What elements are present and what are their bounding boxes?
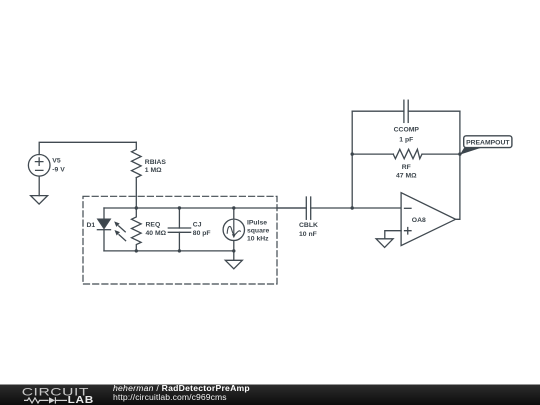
svg-text:LAB: LAB [68, 395, 94, 405]
node REQ bottom rail [135, 249, 138, 252]
wire CCOMP right [408, 110, 460, 112]
svg-text:RBIAS: RBIAS [145, 159, 167, 166]
svg-text:47 MΩ: 47 MΩ [396, 173, 417, 180]
wire V5 top to RBIAS [39, 142, 136, 154]
wire IPulse to ground [233, 251, 235, 260]
label PREAMPOUT [466, 139, 510, 146]
svg-text:80 pF: 80 pF [193, 230, 211, 237]
voltage source V5 [28, 155, 50, 177]
svg-text:D1: D1 [87, 222, 96, 229]
svg-text:10 kHz: 10 kHz [247, 236, 269, 243]
wire CCOMP left [352, 110, 404, 112]
wire top rail [104, 207, 306, 209]
label CCOMP value [394, 126, 420, 143]
node feedback left minus [351, 206, 354, 209]
flag PREAMPOUT [460, 136, 512, 155]
wire feedback left vertical [351, 111, 353, 208]
label V5 value [52, 158, 65, 174]
label OA8 [412, 217, 426, 224]
label D1 [87, 222, 96, 229]
svg-text:-9 V: -9 V [52, 166, 65, 173]
wire op-amp plus to ground [385, 231, 401, 239]
node IPulse bottom rail [232, 249, 235, 252]
svg-text:40 MΩ: 40 MΩ [146, 230, 167, 237]
svg-text:CJ: CJ [193, 221, 202, 228]
label RF value [396, 164, 417, 180]
label CJ value [193, 221, 211, 237]
svg-text:IPulse: IPulse [247, 220, 267, 227]
wire V5 bottom [38, 176, 40, 196]
capacitor CCOMP [404, 100, 408, 122]
resistor REQ [132, 208, 142, 251]
node IPulse top rail [232, 206, 235, 209]
svg-text:PREAMPOUT: PREAMPOUT [466, 139, 510, 146]
current source IPulse [223, 208, 244, 251]
wire RBIAS to node [135, 178, 137, 208]
svg-text:1 MΩ: 1 MΩ [145, 167, 162, 174]
photodiode D1 [97, 208, 110, 251]
label RBIAS value [145, 159, 167, 174]
ground below IPulse [225, 260, 242, 269]
svg-text:REQ: REQ [146, 221, 161, 228]
svg-text:http://circuitlab.com/c969cms: http://circuitlab.com/c969cms [113, 392, 227, 402]
label REQ value [146, 221, 167, 237]
node RF left [351, 152, 354, 155]
svg-text:1 pF: 1 pF [399, 136, 413, 143]
svg-text:V5: V5 [52, 158, 61, 165]
wire bottom rail [104, 250, 234, 252]
resistor RBIAS [132, 142, 142, 177]
wire feedback right vertical to output [456, 111, 460, 219]
svg-text:CCOMP: CCOMP [394, 126, 420, 133]
capacitor CBLK [306, 197, 352, 219]
wire RF left [352, 153, 393, 155]
capacitor CJ [168, 208, 190, 251]
op-amp OA8 [401, 193, 456, 246]
CircuitLab logo resistor-diode line [24, 397, 67, 403]
svg-text:CBLK: CBLK [299, 222, 318, 229]
label CBLK value [299, 222, 318, 238]
wire RF right [422, 153, 460, 155]
node RF right output [458, 152, 461, 155]
wire CBLK to op-amp minus [352, 207, 401, 209]
dashed detector box [83, 196, 277, 284]
footer bar [0, 385, 540, 405]
node RBIAS top rail [135, 206, 138, 209]
svg-text:OA8: OA8 [412, 217, 426, 224]
svg-text:RF: RF [402, 164, 411, 171]
node CJ bottom rail [178, 249, 181, 252]
label IPulse value [247, 220, 270, 243]
ground below V5 [31, 196, 48, 205]
ground at op-amp plus [376, 239, 393, 248]
wire top rail to CBLK [277, 207, 306, 209]
svg-text:square: square [247, 228, 270, 235]
resistor RF [393, 149, 422, 158]
svg-text:10 nF: 10 nF [299, 231, 317, 238]
node CJ top rail [178, 206, 181, 209]
D1 light arrows [114, 221, 125, 240]
